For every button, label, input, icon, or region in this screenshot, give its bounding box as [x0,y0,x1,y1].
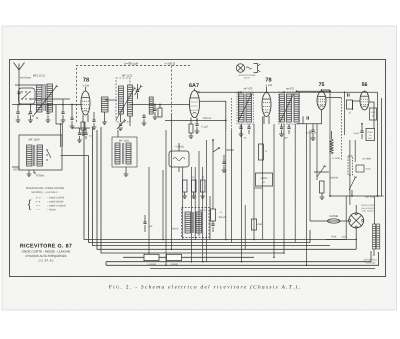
wave change switch [213,140,219,152]
wire V1 pins [82,115,84,123]
ground osc coil [102,122,107,125]
wire bend L3 [93,127,331,246]
wire riser x310 [309,130,311,221]
IF transformer T3 outline [279,92,300,124]
wire socket bottom [355,228,357,249]
wire left double riser [60,123,62,147]
svg-text:ALT. 45-12: ALT. 45-12 [306,132,317,135]
resistor R31 [252,219,257,230]
IF transformer MF 1105 box [112,137,137,167]
tuning arrow T3 [280,93,295,122]
wire row y99 left [31,98,71,100]
schematic border frame [10,60,386,277]
wire R13 [321,193,323,197]
svg-text:½: ½ [220,211,222,214]
svg-text:56: 56 [362,82,368,88]
tube V2 6A7 envelope [190,91,200,118]
capacitor under T2 a [239,127,242,129]
wire V4 top [322,90,331,92]
svg-text:mF 475: mF 475 [243,88,253,91]
wire screen V1 [93,112,95,120]
svg-text:RICEVITORE G. 87: RICEVITORE G. 87 [20,243,72,249]
capacitor pair C main 1 [78,133,81,135]
wire riser x245 [244,205,246,249]
wire fuse left [310,220,327,222]
coil reaz a [185,212,191,233]
svg-text:ANTENNA: ANTENNA [20,77,31,80]
svg-text:400 kΩ: 400 kΩ [218,216,226,219]
pickup squiggle [246,67,252,69]
ground diode cap [311,138,316,141]
coil L5b [126,143,131,164]
core lines MF1105 [121,143,123,164]
svg-text:MF 1/7: MF 1/7 [200,209,208,212]
svg-text:0,5μF: 0,5μF [354,132,360,135]
junction dots left row [18,104,20,106]
speaker pot arrow [349,176,357,190]
rectifier socket circle [349,213,364,229]
svg-text:½: ½ [265,150,267,153]
svg-text:FUSIB.: FUSIB. [329,214,338,218]
tube V5 56 envelope [360,91,369,110]
capacitor under T3 b [287,127,290,129]
svg-text:MF 1105: MF 1105 [119,139,130,142]
capacitor C2 left [70,118,73,120]
svg-text:G.F.V.: G.F.V. [244,77,250,80]
coil T3 right half [294,94,299,122]
svg-text:5 AΩ: 5 AΩ [366,168,371,171]
resistor mid row [158,108,162,117]
wire riser x306 [306,124,308,265]
box 50000 ohm [256,173,273,186]
wire transformer top [374,196,376,224]
wire pos row [326,239,356,241]
coil L3b [128,85,133,116]
wire x330 riser [329,90,331,196]
svg-text:DEL TELAIO: DEL TELAIO [362,209,374,212]
aerial coil L2 [47,84,53,112]
cathode resistor V1 [81,122,85,130]
svg-text:MF 1109: MF 1109 [29,138,40,142]
wire bend L1 [84,122,346,240]
ground screen V1 [92,127,97,130]
wire riser 56 to output [369,102,374,129]
ground R13 [320,197,325,200]
wire riser x231 dashed [231,98,233,130]
svg-text:MIA FREQ. — kHz 634≈4: MIA FREQ. — kHz 634≈4 [31,191,58,194]
wire mid row right of box C [160,104,190,106]
wire riser x166 [165,130,167,265]
wire 1000 ohm row [165,119,226,121]
core lines MF1109 [32,145,34,166]
wire osc coil [104,112,106,122]
coil small x149 [149,97,153,114]
tube V4 75 envelope [317,92,326,110]
wire MF1105 top [117,130,119,137]
wire jog y150 [226,149,234,151]
svg-text:•—•: •—• [36,204,40,207]
wire riser x239 [238,92,240,120]
wire row y85 left [15,84,47,86]
svg-text:78: 78 [265,78,271,84]
wire V2 screen right [200,101,226,132]
bus through resistor boxes [123,256,254,258]
bus junction dots [165,265,167,267]
ground MF1109 [27,174,32,177]
ground C2 [70,126,75,129]
wire riser x213 [212,152,214,209]
mains transformer primary coil [373,224,376,249]
wire riser x274 [273,124,275,257]
svg-text:POS.: POS. [331,236,337,239]
capacitor pair C main 2 [84,133,87,135]
wire riser x317 [316,124,318,180]
junction dot mid row [154,104,156,106]
wire jog y188 [254,187,262,189]
IF transformer T2 left outline [237,92,254,124]
fuse F1 [327,219,340,223]
wire V5 top [364,91,366,92]
junction dots top rows [198,92,200,94]
wire jog to bends [61,155,89,157]
capacitor under T3 a [280,127,283,129]
right column riser A [377,92,379,196]
svg-text:e 636: e 636 [83,84,90,87]
tuning arrow across coils [34,85,58,115]
wire antenna lead [18,86,20,104]
wire riser x203 [202,167,204,262]
svg-text:78: 78 [83,78,89,84]
capacitor mid row 2 [142,116,145,118]
wire C2 [71,105,73,119]
bottom bus B7 [106,251,371,262]
wire y100 under box C [105,99,117,101]
wire grid row left [12,104,82,106]
wire R12 top [331,131,333,139]
wire osc top [178,143,180,151]
ground V1 cathode [81,133,86,136]
svg-text:CHASSIS ALTA FREQUENZA: CHASSIS ALTA FREQUENZA [25,254,67,258]
tuning arrow box C [116,87,136,120]
resistor R13 [320,181,325,193]
wire V2 pins down [190,118,192,125]
cap C40 [211,224,214,226]
wire V5 grid left [353,101,361,110]
wire right bottom row [330,195,384,197]
svg-text:e 626: e 626 [266,84,273,87]
junction dot under 6A7 [196,120,198,122]
wave switch rounded box [19,88,36,104]
bottom bus B8 [106,252,379,265]
svg-text:FIG. 2. - Schema elettrico del: FIG. 2. - Schema elettrico del ricevitor… [109,284,301,290]
svg-text:E3A: E3A [371,111,375,114]
ground CV2 [118,128,123,131]
variable capacitor CV2 [119,124,122,126]
svg-text:= ONDE LUNGHE: = ONDE LUNGHE [47,204,66,207]
svg-text:4 W500: 4 W500 [170,263,178,266]
coil L5a [115,143,120,164]
capacitor stack x30 [29,112,32,114]
resistor R20 [183,180,188,192]
capacitor stack x18 [16,112,19,114]
svg-text:¼ 1240: ¼ 1240 [332,157,341,160]
core lines between L1 L2 [43,86,45,111]
coil T2a [239,94,245,122]
coil L4a [27,145,33,166]
svg-text:TRAS.: TRAS. [367,131,373,134]
capacitor 0.1uF under 6A7 [195,124,198,126]
oscillator block [169,151,189,167]
speaker field coil dashed [348,156,353,175]
wire riser x210 [209,196,211,240]
svg-text:{: { [28,199,32,211]
wire riser x149 [148,167,150,257]
trimmer capacitor mid [153,109,156,111]
ground MF1105 [124,174,129,177]
bus resistor box 2 [167,254,182,260]
switch contacts in box [21,91,22,92]
svg-text:½ MΩ: ½ MΩ [256,223,262,226]
coil reaz b [196,212,202,233]
wire riser x199 [198,151,200,236]
grid resistor 6A7 [189,124,193,133]
wire riser x63 [62,99,64,112]
switch contacts in MF1109 [46,149,47,150]
junction dots right column [329,90,331,92]
svg-text:USC.: USC. [368,137,373,140]
svg-text:REAZ.: REAZ. [172,228,179,231]
coil T3a [280,94,285,122]
svg-text:MF 1132: MF 1132 [122,74,133,77]
svg-text:RETE: RETE [14,169,21,172]
svg-text:0,1μF: 0,1μF [202,126,209,129]
output small box [356,165,364,172]
wire V3 grid [266,87,268,93]
wire riser x295 [294,124,296,243]
tube V3 78 envelope [262,93,271,117]
right column riser B [381,98,383,196]
wire top bus junctions [266,91,268,93]
svg-text:40000Ω: 40000Ω [330,177,339,180]
wire riser x241 [241,124,243,262]
junction dot x72 [71,104,73,106]
wire riser x206 [206,140,208,262]
wire riser x341 dotted [341,98,343,160]
capacitor C41 [143,222,146,224]
svg-text:——: —— [36,209,41,211]
wire riser x191 [191,167,193,262]
switch dots lower [28,113,29,114]
wire riser x284 [283,124,285,253]
wire riser x195 [194,167,196,240]
capacitor stack x48 [46,112,49,114]
wire V1 grid cap [85,87,87,91]
volume potentiometer [314,171,329,173]
resistor R12 zigzag [330,139,333,154]
wire riser x183 [182,167,184,240]
svg-text:Σ=400 μμF: Σ=400 μμF [124,61,139,65]
svg-text:≈ 550 Ω: ≈ 550 Ω [165,61,176,65]
svg-text:= FONO: = FONO [47,208,56,211]
wire V2 grid cap [194,89,196,91]
wire terra [34,170,36,173]
phono pickup symbol [236,64,244,72]
wire T3 to plate bus [297,90,331,92]
right column riser C [349,140,351,205]
oscillator coil by V1 [102,97,109,112]
svg-text:ne 1968: ne 1968 [362,158,371,161]
wire MF1109 bottom [28,170,30,174]
wire osc bottom [178,167,180,172]
svg-text:PRESA VERDE: PRESA VERDE [361,204,376,207]
wire transformer bottom [373,249,375,256]
bottom bus B9 [150,268,375,270]
svg-text:50000: 50000 [261,177,268,180]
wire bend L4 [97,130,356,249]
wire box C leads down [120,114,122,122]
aerial coil L1 [37,85,43,112]
wire y104 box C to right [130,104,160,106]
wire riser x254 [253,124,255,240]
tuning arrow T2 [238,93,253,122]
svg-text:MF1 1531: MF1 1531 [33,74,46,77]
coil L4b [37,145,43,166]
svg-text:DALLA PARTE: DALLA PARTE [361,207,375,210]
wire riser x344 [344,92,346,135]
ground under 6A7 [195,131,200,134]
tube V1 78 envelope [81,91,90,115]
resistor R30 vertical [259,144,264,160]
capacitor stack x63 [61,112,64,114]
reaction transformer dashed box [182,208,210,238]
resistor R22 [201,180,206,192]
svg-text:1000 Ω: 1000 Ω [203,117,211,120]
bus resistor box 1 [144,254,159,260]
wire MF1105 bottom [125,167,127,174]
capacitor under T2 b [247,127,250,129]
right column riser D [354,140,356,162]
diode caps V4 [311,130,314,132]
svg-text:= ONDE CORTE: = ONDE CORTE [47,196,65,199]
coil L3a [119,86,124,114]
capacitor 100uF [307,116,309,119]
output transformer box TRAS [366,129,375,141]
wire V4 plate right [326,97,342,99]
svg-text:TERRA: TERRA [36,175,45,178]
screen capacitor V1 [92,120,95,122]
coil T2b [246,94,252,122]
wire bend L2 [89,156,311,243]
wire bend L5 [101,127,284,253]
svg-text:Ω: Ω [263,181,265,184]
wire riser x163 [162,170,164,240]
mains transformer secondary coil [377,224,380,249]
svg-text:POSIZIONI DEL COMMUTATORE: POSIZIONI DEL COMMUTATORE [26,187,65,190]
trimmer right of box C [136,90,140,92]
wire riser x232 [231,130,233,243]
wire riser x226 [225,132,227,240]
svg-text:ne 472: ne 472 [286,88,295,91]
resistor stack R40 [211,209,216,221]
IF transformer MF 1132 dashed box [116,78,130,122]
wire V3 pins [263,116,265,124]
wire fuse right [340,220,349,222]
pickup bracket [254,64,258,73]
pot stem [351,190,353,196]
dashed shield enclosure first 78 stage [77,66,191,123]
wire riser x56 down [56,105,62,125]
svg-text:14 W500: 14 W500 [147,263,157,266]
svg-text:75: 75 [319,82,325,88]
svg-text:ATTACCO FONO: ATTACCO FONO [238,74,255,77]
wire V1 cathode gnd [82,130,84,133]
wire top cap row [72,127,90,129]
resistor R21 [192,180,197,192]
wire rete [12,166,19,168]
wire riser x346 [345,196,347,240]
dashed vertical shield x171 [171,66,173,114]
antenna coupling capacitor [17,92,20,94]
wire socket top [355,205,357,213]
core lines reaz [191,212,193,233]
svg-text:= ONDE MEDIE: = ONDE MEDIE [47,200,64,203]
wire riser x263 [262,117,264,240]
wire V2 plate to top bus [195,91,378,93]
coil T3b [287,94,292,122]
svg-text:( G. 87. A ): ( G. 87. A ) [39,259,54,263]
coupling cap to V5 [348,93,350,96]
ground grid resistor [189,136,194,139]
grid resistor V5 [347,100,353,109]
svg-text:μμF: μμF [284,137,289,140]
capacitor C out 0.5uF [360,131,363,133]
wire bus left joins [105,262,107,266]
IF transformer MF 1109 box [19,135,62,170]
wire riser x171 lower [171,113,173,249]
capacitor C30 [222,162,225,164]
svg-text:6A7: 6A7 [189,83,199,89]
box right of 56 [370,108,377,120]
antenna [14,63,25,87]
wire V4 bottom row [297,110,322,124]
